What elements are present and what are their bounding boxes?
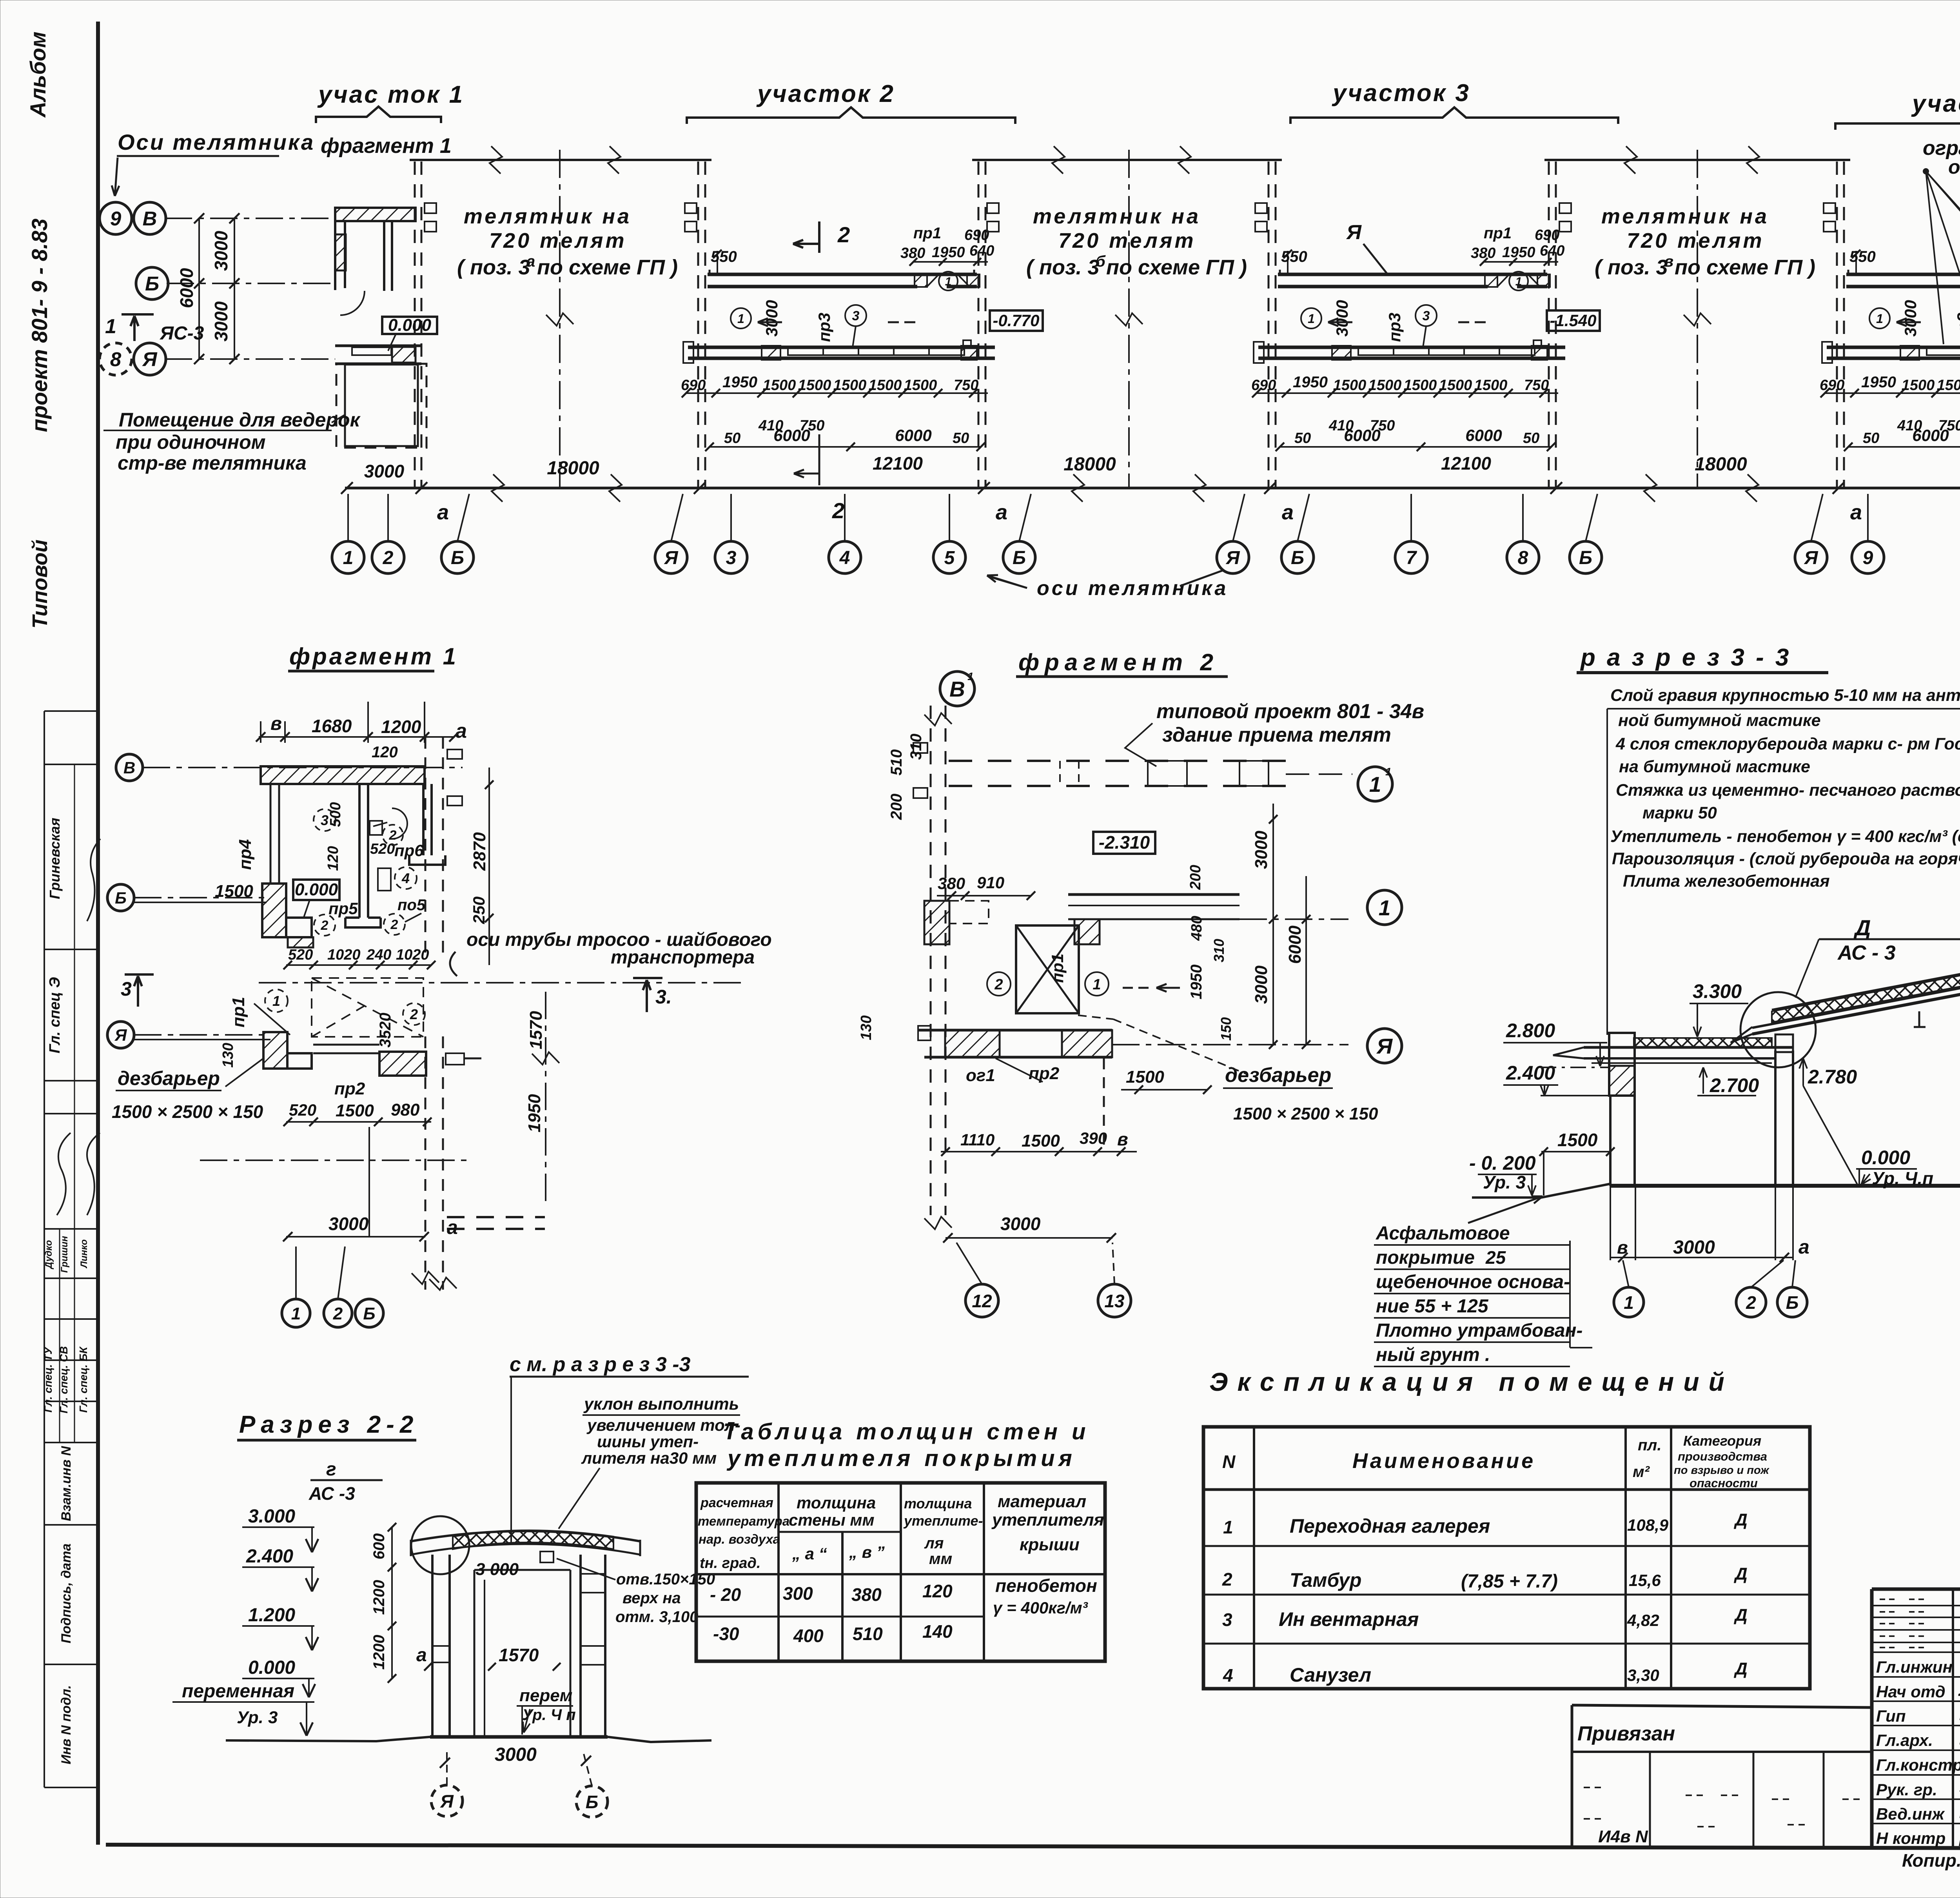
axis bubble 5	[933, 541, 965, 573]
main axis dimension line (а)	[345, 487, 1960, 490]
svg-text:1: 1	[1093, 976, 1101, 993]
svg-text:50: 50	[1523, 430, 1539, 446]
svg-text:Д: Д	[1853, 915, 1871, 940]
gallery: south wall piers	[1900, 346, 1919, 360]
svg-text:участок 4: участок 4	[1911, 90, 1960, 117]
gallery: circled 3	[1416, 305, 1437, 326]
axis bubble 1 (фрагмент 2 right)	[1367, 890, 1402, 925]
фрагмент 2: left wall blocks	[924, 901, 949, 944]
svg-text:750: 750	[1524, 377, 1549, 394]
svg-text:6000: 6000	[1912, 426, 1949, 445]
svg-text:1500: 1500	[1474, 377, 1508, 394]
svg-text:640: 640	[969, 243, 994, 259]
svg-text:Нач отд: Нач отд	[1876, 1682, 1945, 1701]
margin signature table grid	[44, 711, 45, 1787]
svg-text:25: 25	[1485, 1247, 1506, 1268]
svg-text:3.: 3.	[655, 986, 672, 1008]
svg-text:( поз. 3: ( поз. 3	[457, 256, 530, 279]
svg-text:1500 × 2500 × 150: 1500 × 2500 × 150	[1233, 1104, 1378, 1123]
svg-text:3: 3	[852, 308, 860, 323]
svg-text:2870: 2870	[470, 832, 489, 871]
svg-text:телятник на: телятник на	[1601, 205, 1769, 228]
svg-text:Вед.инж: Вед.инж	[1876, 1805, 1945, 1823]
svg-text:2: 2	[837, 222, 850, 247]
gallery: dimension chain 690/1950/1500x5/750	[686, 392, 988, 394]
svg-text:отм. 3,100: отм. 3,100	[615, 1608, 698, 1626]
svg-text:Гип: Гип	[1876, 1707, 1906, 1725]
svg-text:3 000: 3 000	[475, 1560, 519, 1579]
svg-text:стр-ве телятника: стр-ве телятника	[118, 452, 307, 474]
gallery: north wall	[1846, 273, 1960, 276]
svg-text:Б: Б	[1579, 548, 1592, 568]
svg-text:910: 910	[977, 873, 1004, 892]
разрез 2-2: walls	[431, 1555, 434, 1737]
svg-text:120: 120	[325, 846, 341, 871]
svg-text:Плотно утрамбован-: Плотно утрамбован-	[1376, 1320, 1583, 1341]
svg-text:18000: 18000	[1695, 454, 1747, 475]
фрагмент 1: дезбарьер dashed outline	[312, 978, 423, 1037]
svg-text:В: В	[143, 207, 157, 230]
svg-text:1: 1	[291, 1304, 301, 1323]
фрагмент 2: leader to building	[1125, 723, 1156, 766]
svg-text:по схеме ГП ): по схеме ГП )	[1675, 256, 1815, 279]
svg-text:1500: 1500	[763, 377, 796, 394]
svg-text:г: г	[326, 1459, 336, 1480]
svg-text:расчетная: расчетная	[700, 1495, 773, 1510]
svg-text:„ а “: „ а “	[792, 1544, 827, 1563]
svg-text:учас ток 1: учас ток 1	[317, 81, 464, 108]
svg-text:утеплителя: утеплителя	[991, 1510, 1104, 1530]
svg-text:1200: 1200	[381, 717, 421, 737]
участок 1: inner wall	[383, 221, 385, 291]
svg-text:пр5: пр5	[328, 899, 358, 918]
фрагмент 1: left pier hatched	[262, 884, 286, 937]
разрез 3-3: left column	[1609, 1096, 1612, 1186]
title block outer frame	[1872, 1588, 1960, 1591]
svg-text:в: в	[1664, 253, 1673, 270]
svg-text:участок 2: участок 2	[756, 80, 895, 107]
svg-text:фрагмент 1: фрагмент 1	[289, 643, 458, 670]
margin signature squiggle	[87, 839, 100, 921]
фрагмент 1: left wall column	[270, 784, 272, 884]
vertical dim 3000 upper	[234, 218, 235, 359]
gallery: dimension chain 690/1950/1500x5/750	[1825, 392, 1960, 394]
фрагмент 2: elevation box -2.310	[1093, 832, 1155, 854]
svg-text:шины утеп-: шины утеп-	[597, 1432, 699, 1451]
телятник: centre axis chain line	[1128, 150, 1130, 487]
svg-text:150: 150	[1218, 1017, 1234, 1041]
svg-text:-2.310: -2.310	[1099, 832, 1150, 853]
svg-text:1500 × 2500 × 150: 1500 × 2500 × 150	[112, 1101, 263, 1122]
фрагмент 1: axis bubble Я	[107, 1022, 134, 1048]
svg-text:1950: 1950	[1188, 965, 1205, 1000]
svg-text:производства: производства	[1678, 1450, 1767, 1463]
разрез 3-3: elevation 2.780	[1802, 1058, 1804, 1086]
фрагмент 1: circled 3 with 500	[314, 809, 336, 831]
svg-text:пр6: пр6	[394, 841, 424, 860]
gallery: dim row 50 6000 6000 50	[1280, 446, 1551, 448]
svg-text:Н контр: Н контр	[1876, 1829, 1945, 1847]
svg-text:a: a	[1850, 501, 1862, 524]
svg-text:120: 120	[922, 1581, 953, 1601]
svg-text:12100: 12100	[873, 453, 923, 474]
svg-text:Линко: Линко	[79, 1239, 89, 1268]
svg-text:1950: 1950	[722, 374, 757, 391]
svg-text:м²: м²	[1633, 1463, 1650, 1481]
svg-text:Экспликация помещений: Экспликация помещений	[1209, 1367, 1734, 1396]
svg-text:120: 120	[372, 744, 398, 761]
svg-text:переменная: переменная	[182, 1681, 294, 1702]
участок 1: right dashed корпус wall	[414, 161, 416, 487]
gallery: dim 550 at left	[1855, 251, 1857, 274]
svg-text:240: 240	[366, 947, 391, 963]
svg-text:1500: 1500	[1439, 377, 1472, 394]
svg-text:утеплителя покрытия: утеплителя покрытия	[726, 1446, 1076, 1471]
фрагмент 2: dashed wall vertical	[930, 706, 932, 1215]
svg-text:лителя на30 мм: лителя на30 мм	[581, 1449, 717, 1467]
svg-text:пр3: пр3	[1954, 313, 1960, 342]
ticks on main axis line	[341, 482, 353, 494]
svg-text:1: 1	[1876, 312, 1883, 326]
axis bubble 1	[332, 541, 364, 573]
svg-text:пр4: пр4	[236, 839, 255, 870]
svg-text:Гриневская: Гриневская	[47, 818, 63, 899]
фрагмент 1: axis line В	[143, 767, 463, 768]
svg-text:1.200: 1.200	[248, 1605, 295, 1626]
svg-text:(7,85 + 7.7): (7,85 + 7.7)	[1461, 1571, 1558, 1592]
axis bubble Б	[1570, 541, 1602, 573]
телятник: north outline line	[410, 159, 711, 161]
axis bubble Б	[1281, 541, 1314, 573]
svg-text:690: 690	[1251, 377, 1276, 394]
gallery: left телятник dashed wall	[1836, 161, 1838, 487]
фрагмент 1: right dashed walls	[425, 737, 426, 953]
svg-text:толщина: толщина	[797, 1493, 876, 1512]
gallery: left телятник dashed wall	[697, 161, 699, 487]
фрагмент 2: upper wall band right	[1068, 893, 1240, 896]
svg-text:720 телят: 720 телят	[1627, 229, 1764, 252]
svg-text:фрагмент 1: фрагмент 1	[321, 134, 452, 158]
фрагмент 1: transporter chain axis	[259, 982, 745, 983]
svg-text:Таблица толщин стен и: Таблица толщин стен и	[723, 1419, 1089, 1444]
svg-text:1: 1	[343, 548, 354, 568]
gallery: north wall	[708, 273, 977, 276]
svg-text:стены мм: стены мм	[789, 1511, 875, 1529]
разрез 2-2: detail circle	[411, 1516, 469, 1574]
svg-text:Пароизоляция - (слой руберо: Пароизоляция - (слой рубероида на горяче…	[1612, 849, 1960, 868]
svg-text:2: 2	[1222, 1569, 1232, 1590]
sheet frame bottom border	[106, 1845, 1960, 1849]
привязан dashes	[1584, 1787, 1602, 1788]
svg-text:310: 310	[907, 734, 925, 760]
svg-text:пр3: пр3	[1385, 313, 1404, 342]
разрез 3-3: left pier with hatch	[1609, 1033, 1635, 1096]
gallery: mid-bay circled 1	[1301, 308, 1321, 328]
фрагмент 1: stub marks right	[447, 749, 462, 759]
разрез 3-3: roof ribs	[1914, 1011, 1926, 1027]
телятник: north outline line	[972, 159, 1282, 161]
svg-text:1500: 1500	[1557, 1130, 1598, 1150]
svg-text:пр1: пр1	[1484, 225, 1512, 242]
телятник: wall stub squares	[1559, 203, 1571, 213]
svg-text:Ин вентарная: Ин вентарная	[1279, 1608, 1419, 1630]
svg-text:пенобетон: пенобетон	[995, 1575, 1097, 1596]
svg-text:-30: -30	[713, 1624, 739, 1644]
svg-text:1570: 1570	[526, 1011, 546, 1049]
svg-text:Гл. спец. СВ: Гл. спец. СВ	[58, 1346, 70, 1413]
svg-text:- 20: - 20	[710, 1584, 741, 1605]
gallery: south wall piers	[1332, 346, 1351, 360]
svg-text:ЯС-3: ЯС-3	[159, 323, 204, 344]
svg-text:1020: 1020	[396, 947, 429, 963]
svg-text:0.000: 0.000	[248, 1657, 295, 1678]
фрагмент 1: dashed band lower right	[447, 1216, 545, 1218]
svg-text:1950: 1950	[932, 244, 965, 261]
gallery: right телятник dashed wall	[1548, 161, 1550, 487]
svg-text:Переходная галерея: Переходная галерея	[1290, 1515, 1490, 1537]
svg-text:( поз. 3: ( поз. 3	[1595, 256, 1668, 279]
svg-text:6000: 6000	[773, 426, 810, 445]
svg-text:2: 2	[410, 1006, 418, 1022]
svg-text:15,6: 15,6	[1629, 1571, 1661, 1590]
break mark on axis line	[609, 474, 622, 502]
svg-text:а: а	[526, 253, 535, 270]
svg-text:1: 1	[1369, 772, 1381, 797]
телятник: wall stub squares	[987, 203, 999, 213]
svg-text:a: a	[996, 501, 1007, 524]
gallery: left телятник dashed wall	[1268, 161, 1270, 487]
svg-text:380: 380	[900, 245, 925, 261]
участок 1: dashed annex (помещение для ведерок)	[345, 365, 418, 446]
svg-text:ный грунт .: ный грунт .	[1376, 1345, 1490, 1365]
разрез 2-2: roof	[411, 1531, 640, 1541]
фрагмент 1: lower protrusion right	[446, 1053, 464, 1065]
svg-text:3: 3	[121, 978, 132, 1000]
фрагмент 1: bottom axis bubbles 1 2 б	[282, 1299, 310, 1327]
gallery: dash-dot level mark	[888, 321, 919, 323]
svg-text:300: 300	[783, 1583, 813, 1604]
svg-text:Б: Б	[145, 272, 159, 295]
svg-text:2: 2	[1746, 1292, 1756, 1313]
svg-text:12: 12	[972, 1291, 992, 1311]
axis bubble Я (left)	[134, 343, 166, 375]
svg-text:1950: 1950	[1293, 374, 1328, 391]
svg-text:130: 130	[220, 1043, 236, 1067]
svg-text:550: 550	[1281, 248, 1307, 265]
svg-text:1500: 1500	[833, 377, 867, 394]
svg-text:3: 3	[1423, 308, 1430, 323]
svg-text:18000: 18000	[1063, 454, 1116, 475]
svg-text:пр2: пр2	[334, 1079, 365, 1098]
svg-text:Гл.арх.: Гл.арх.	[1876, 1731, 1933, 1749]
svg-text:б: б	[1096, 253, 1106, 270]
svg-text:пр2: пр2	[1029, 1064, 1060, 1083]
svg-text:140: 140	[922, 1621, 953, 1642]
gallery: dim 550 at left	[717, 251, 718, 274]
svg-text:13: 13	[1104, 1291, 1125, 1311]
svg-text:2: 2	[832, 498, 844, 523]
svg-text:участок 3: участок 3	[1332, 80, 1470, 107]
svg-text:по схеме ГП ): по схеме ГП )	[537, 256, 678, 279]
svg-text:1: 1	[737, 312, 744, 326]
svg-text:480: 480	[1189, 916, 1205, 941]
svg-text:3000: 3000	[1000, 1214, 1041, 1234]
svg-text:1: 1	[272, 993, 280, 1009]
gallery: south wall	[688, 346, 995, 349]
разрез 3-3: roof top line	[1772, 935, 1960, 1010]
фрагмент 1: lower-left hatched pier	[263, 1032, 287, 1069]
svg-text:0.000: 0.000	[295, 880, 338, 899]
разрез 3-3: eaves tail left	[1731, 1027, 1752, 1043]
разрез 3-3: elevation 2.700	[1702, 1067, 1704, 1094]
svg-text:Б: Б	[115, 889, 127, 907]
svg-text:транспортера: транспортера	[611, 947, 755, 968]
axis bubble 9	[1852, 541, 1884, 573]
svg-text:Гришин: Гришин	[59, 1236, 70, 1273]
svg-text:1500: 1500	[1937, 377, 1960, 394]
svg-text:6000: 6000	[1285, 925, 1305, 964]
svg-text:марки 50: марки 50	[1642, 804, 1717, 822]
svg-text:Д: Д	[1733, 1659, 1748, 1678]
svg-text:Б: Б	[363, 1304, 375, 1323]
svg-text:нар. воздуха: нар. воздуха	[699, 1532, 780, 1546]
svg-text:р а з р е з 3 - 3: р а з р е з 3 - 3	[1580, 644, 1791, 671]
svg-text:пр1: пр1	[1048, 954, 1067, 983]
svg-text:Я: Я	[664, 548, 679, 568]
gallery: dim 550 at left	[1287, 251, 1289, 274]
svg-text:мм: мм	[929, 1550, 952, 1568]
gallery: mid-bay circled 1	[731, 308, 751, 328]
svg-text:2.700: 2.700	[1710, 1074, 1759, 1096]
участок 1: elevation box 0.000	[382, 317, 437, 334]
svg-text:720 телят: 720 телят	[1058, 229, 1196, 252]
разрез 3-3: canopy insulation band	[1634, 1038, 1772, 1047]
svg-text:Б: Б	[586, 1792, 599, 1812]
sheet frame left border	[96, 22, 100, 1845]
фрагмент 1: axis line Б	[134, 897, 267, 898]
svg-text:фрагмент 2: фрагмент 2	[1018, 649, 1219, 675]
участок 1: axis line Б	[167, 283, 336, 284]
svg-text:tн. град.: tн. град.	[700, 1555, 760, 1571]
svg-text:Копир. Калеватых: Копир. Калеватых	[1902, 1850, 1960, 1871]
фрагмент 1: inner wall 1	[358, 784, 361, 918]
svg-text:1500: 1500	[215, 882, 253, 901]
svg-text:380: 380	[1471, 245, 1495, 261]
фрагмент 1: lower small hatched wall	[288, 937, 313, 947]
gallery: elevation level box	[1547, 310, 1600, 331]
svg-text:380: 380	[938, 874, 965, 893]
svg-text:Стяжка из цементно- песчаного: Стяжка из цементно- песчаного раствора	[1616, 781, 1960, 800]
svg-text:опасности: опасности	[1690, 1476, 1758, 1490]
svg-text:Слой гравия крупностью 5-10 мм: Слой гравия крупностью 5-10 мм на антисе…	[1610, 686, 1960, 705]
svg-text:1: 1	[1385, 766, 1392, 778]
участок 1: bottom wall band	[335, 345, 421, 347]
разрез 2-2: door frame	[474, 1570, 475, 1736]
фрагмент 2: lower wall band	[918, 1029, 1112, 1032]
axis bubble Я (фрагмент 2 right)	[1367, 1029, 1402, 1063]
svg-text:здание приема телят: здание приема телят	[1162, 724, 1391, 746]
фрагмент 2: line to bubble 1'	[1286, 773, 1352, 775]
axis bubble Я	[1217, 541, 1249, 573]
svg-text:верх на: верх на	[622, 1590, 681, 1607]
svg-text:1500: 1500	[1902, 377, 1935, 394]
svg-text:200: 200	[1187, 865, 1204, 890]
svg-text:3000: 3000	[495, 1744, 537, 1765]
svg-text:130: 130	[858, 1015, 875, 1040]
leader to annex	[332, 415, 345, 423]
svg-text:1500: 1500	[336, 1101, 374, 1120]
svg-text:1: 1	[1515, 275, 1522, 288]
svg-text:720 телят: 720 телят	[489, 229, 627, 252]
фрагмент 2: circled 2 and 1	[987, 972, 1011, 996]
svg-text:6000: 6000	[1465, 426, 1502, 445]
svg-text:1680: 1680	[312, 716, 352, 736]
svg-text:АС -3: АС -3	[309, 1483, 355, 1504]
svg-text:Тамбур: Тамбур	[1290, 1569, 1361, 1591]
axis bubble 7	[1395, 541, 1427, 573]
svg-text:1500: 1500	[1404, 377, 1437, 394]
svg-text:Рук. гр.: Рук. гр.	[1876, 1780, 1937, 1799]
svg-text:690: 690	[964, 227, 989, 243]
svg-text:Д: Д	[1733, 1564, 1748, 1584]
svg-text:Асфальтовое: Асфальтовое	[1376, 1223, 1510, 1244]
svg-text:8: 8	[1518, 548, 1528, 568]
axis bubble 2	[372, 541, 404, 573]
svg-text:дезбарьер: дезбарьер	[1225, 1064, 1331, 1087]
gallery: dim row 50 6000 6000 50	[1848, 446, 1960, 448]
svg-text:Я: Я	[114, 1026, 127, 1044]
svg-text:3000: 3000	[1252, 965, 1271, 1004]
svg-text:3.300: 3.300	[1693, 980, 1742, 1002]
svg-text:5: 5	[944, 548, 955, 568]
фрагмент 1: axis bubble Б	[107, 884, 134, 911]
фрагмент 2: stub marks	[913, 743, 927, 753]
svg-text:1: 1	[105, 315, 116, 338]
разрез 3-3: detail circle	[1740, 992, 1816, 1067]
svg-text:4 слоя стеклорубероида марки с: 4 слоя стеклорубероида марки с- рм Гост …	[1615, 735, 1960, 753]
svg-text:Альбом: Альбом	[25, 32, 50, 118]
svg-text:пр3: пр3	[815, 313, 833, 342]
gallery: north wall	[1278, 273, 1547, 276]
фрагмент 1: WC fixture arc	[392, 808, 407, 839]
svg-text:510: 510	[888, 749, 905, 776]
svg-text:типовой проект 801 - 34в: типовой проект 801 - 34в	[1156, 700, 1424, 723]
svg-text:температура: температура	[698, 1514, 789, 1528]
svg-text:2.400: 2.400	[1506, 1062, 1555, 1084]
фрагмент 2: дезбарьер leader dashed	[1113, 1019, 1247, 1074]
svg-text:1570: 1570	[499, 1645, 539, 1665]
привязан box frame	[1572, 1705, 1872, 1707]
фрагмент 1: inner wall 2	[422, 784, 425, 855]
svg-text:750: 750	[954, 377, 978, 394]
svg-text:Утеплитель - пенобетон γ = 400: Утеплитель - пенобетон γ = 400 кгс/м³ (с…	[1610, 827, 1960, 846]
axis bubble 8 (dashed)	[100, 343, 132, 375]
axis bubble 9	[100, 202, 132, 234]
телятник: north outline line	[1544, 159, 1850, 161]
фрагмент 2: dash level mark	[1123, 987, 1152, 989]
svg-text:1950: 1950	[1502, 244, 1535, 261]
svg-text:3520: 3520	[377, 1013, 394, 1048]
svg-text:690: 690	[1820, 377, 1844, 394]
svg-text:Д: Д	[1733, 1606, 1748, 1625]
фрагмент 2: right chain lines	[1240, 918, 1348, 920]
svg-text:310: 310	[1211, 939, 1227, 962]
gallery: dimension chain 690/1950/1500x5/750	[1256, 392, 1558, 394]
svg-text:a: a	[1282, 501, 1294, 524]
svg-text:Санузел: Санузел	[1290, 1664, 1371, 1686]
svg-text:0.000: 0.000	[1861, 1147, 1910, 1169]
svg-text:2: 2	[383, 548, 394, 568]
